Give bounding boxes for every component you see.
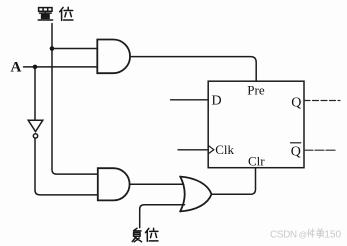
- wire reset line up to OR lower input: [140, 205, 185, 228]
- node junction dot on A line: [33, 65, 38, 70]
- wire A line to top AND lower input: [24, 66, 98, 68]
- wire Q-bar output stub: [304, 149, 336, 151]
- and gate G1 (top): [97, 40, 130, 74]
- pin label Q-bar: [291, 143, 301, 160]
- wire D input stub: [171, 99, 209, 101]
- wire Clk input stub: [178, 149, 208, 151]
- D flip-flop U1 box: [208, 81, 304, 168]
- wire inverter output to lower AND lower input: [35, 138, 98, 195]
- svg-text:Pre: Pre: [247, 82, 265, 97]
- inverter U2 (triangle with bubble): [28, 120, 43, 138]
- watermark CSDN: [270, 229, 342, 240]
- svg-text:CSDN: CSDN: [270, 229, 297, 240]
- wire G1 output to Pre input: [130, 57, 256, 81]
- svg-text:Q: Q: [291, 145, 301, 160]
- svg-text:Q: Q: [291, 95, 301, 110]
- node junction dot on set line: [50, 46, 55, 51]
- svg-text:Clr: Clr: [248, 154, 265, 169]
- or gate G3: [180, 177, 211, 212]
- label 置位 (Set): [38, 7, 73, 20]
- wire A branch down to inverter: [34, 67, 36, 120]
- and gate G2 (bottom): [98, 168, 130, 200]
- label 复位 (Reset): [132, 228, 158, 242]
- svg-text:A: A: [11, 59, 22, 75]
- watermark glyph 帅: [307, 229, 314, 238]
- wire set line vertical from 置位 down to lower AND: [52, 24, 98, 175]
- svg-text:@: @: [299, 229, 308, 239]
- wire Q output stub: [304, 100, 340, 102]
- watermark glyph 弟: [317, 229, 324, 238]
- svg-text:D: D: [212, 93, 222, 108]
- svg-text:Clk: Clk: [215, 142, 234, 157]
- clock edge triangle: [208, 145, 214, 154]
- svg-text:150: 150: [324, 229, 341, 240]
- wire G2 output to OR input: [130, 183, 184, 185]
- wire set line to top AND upper input: [52, 48, 97, 50]
- wire G3 output to Clr input: [212, 168, 256, 194]
